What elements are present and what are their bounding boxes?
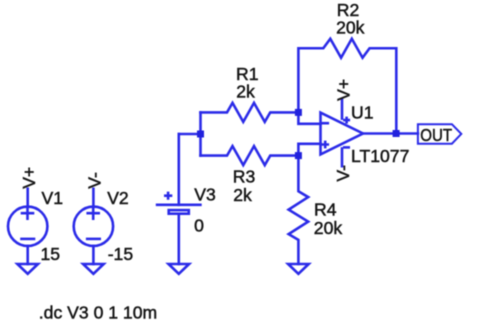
svg-text:15: 15 bbox=[41, 244, 61, 264]
svg-text:V1: V1 bbox=[42, 188, 64, 208]
svg-text:R3: R3 bbox=[233, 166, 256, 186]
svg-text:20k: 20k bbox=[336, 18, 365, 38]
svg-text:U1: U1 bbox=[351, 102, 374, 122]
svg-text:.dc V3 0 1 10m: .dc V3 0 1 10m bbox=[39, 302, 157, 322]
svg-text:OUT: OUT bbox=[420, 125, 452, 145]
svg-text:V+: V+ bbox=[333, 79, 353, 101]
svg-text:V-: V- bbox=[85, 172, 105, 189]
svg-text:2k: 2k bbox=[233, 185, 252, 205]
svg-text:V-: V- bbox=[333, 165, 353, 182]
svg-text:-15: -15 bbox=[108, 244, 134, 264]
svg-text:LT1077: LT1077 bbox=[351, 146, 409, 166]
svg-text:0: 0 bbox=[194, 216, 204, 236]
svg-text:2k: 2k bbox=[236, 81, 255, 101]
svg-text:20k: 20k bbox=[314, 218, 343, 238]
svg-text:R4: R4 bbox=[314, 200, 337, 220]
svg-text:V3: V3 bbox=[194, 185, 216, 205]
svg-text:V+: V+ bbox=[19, 167, 39, 189]
svg-text:V2: V2 bbox=[107, 188, 129, 208]
